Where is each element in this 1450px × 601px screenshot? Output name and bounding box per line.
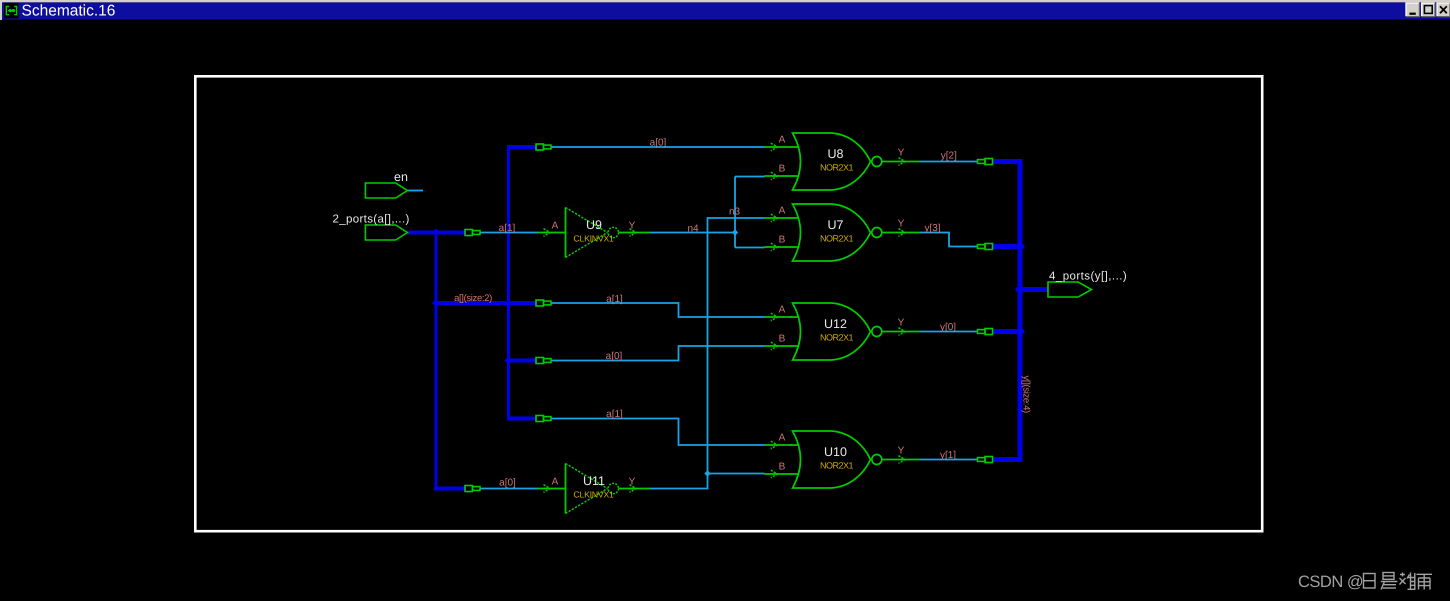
svg-text:y[3]: y[3] <box>924 223 940 234</box>
bus tap a[1] row418 <box>536 416 551 422</box>
wire bus vertical x436 <box>435 231 438 488</box>
junction bus at port tap <box>432 229 440 237</box>
svg-text:NOR2X1: NOR2X1 <box>820 162 854 172</box>
inverter U11 <box>565 464 567 514</box>
junction n3 <box>704 470 710 476</box>
wire y[0] <box>920 331 978 333</box>
svg-text:A: A <box>779 304 786 315</box>
svg-text:n3: n3 <box>729 207 741 218</box>
svg-text:Y: Y <box>629 477 636 488</box>
wire bus y1 to corner <box>993 457 1023 462</box>
wire net n4 vertical <box>734 177 736 248</box>
wire bus vertical x1020 <box>1018 159 1023 462</box>
svg-text:a[1]: a[1] <box>606 294 623 305</box>
maximize button <box>1422 3 1435 17</box>
wire en stub <box>407 190 423 192</box>
bus tap a[1] row232 <box>465 230 480 236</box>
wire a[0] bottom row <box>480 488 538 490</box>
junction bus x508 row303 <box>505 299 513 307</box>
svg-text:U9: U9 <box>586 218 602 232</box>
bus tap y[0] <box>978 329 993 335</box>
svg-text:2_ports(a[],...): 2_ports(a[],...) <box>333 214 410 226</box>
wire n4 to U7 B <box>735 247 765 249</box>
inverter U9 <box>565 208 567 258</box>
svg-text:U11: U11 <box>583 474 605 488</box>
wire bus vertical x508 <box>507 145 510 421</box>
svg-text:y[1]: y[1] <box>940 450 956 461</box>
svg-text:en: en <box>394 170 408 184</box>
svg-text:B: B <box>779 163 786 174</box>
sheet border frame <box>195 76 1262 531</box>
nor gate U8 <box>793 133 871 190</box>
svg-text:Schematic.16: Schematic.16 <box>22 2 116 19</box>
close button <box>1437 3 1450 17</box>
svg-text:U10: U10 <box>824 445 847 459</box>
svg-text:U12: U12 <box>824 317 847 331</box>
junction n4 <box>732 229 738 235</box>
wire y[3] <box>920 233 978 247</box>
wire bus horizontal row303 <box>434 301 537 305</box>
svg-text:a[0]: a[0] <box>499 478 516 489</box>
wire bus y3 to junction <box>993 244 1021 249</box>
svg-text:U7: U7 <box>828 218 844 232</box>
wire n3 to U10 B <box>708 473 765 475</box>
svg-text:NOR2X1: NOR2X1 <box>820 460 854 470</box>
wire bus bottom corner to pin a0 <box>434 487 466 491</box>
wire y[1] <box>920 459 978 461</box>
svg-text:Y: Y <box>629 221 636 232</box>
svg-text:a[1]: a[1] <box>606 409 623 420</box>
junction ybus y3 <box>1015 241 1025 251</box>
output port 4_ports <box>1048 282 1092 297</box>
svg-text:a[1]: a[1] <box>499 223 516 234</box>
svg-text:NOR2X1: NOR2X1 <box>820 233 854 243</box>
minimize button <box>1406 3 1419 17</box>
svg-text:NOR2X1: NOR2X1 <box>820 332 854 342</box>
svg-text:CLKINVX1: CLKINVX1 <box>573 490 614 500</box>
svg-text:Y: Y <box>898 219 905 230</box>
svg-text:y[0]: y[0] <box>940 322 956 333</box>
nor gate U7 <box>793 204 871 261</box>
junction ybus y0 <box>1015 326 1025 336</box>
bus tap y[2] <box>978 159 993 165</box>
title bar <box>2 2 1450 19</box>
wire bus junction to 4_ports <box>1020 287 1048 292</box>
junction bus x508 row360 <box>505 357 513 365</box>
svg-text:y[](size:4): y[](size:4) <box>1021 376 1032 414</box>
wire a[1] row303 to U12 A <box>551 303 765 317</box>
wire y[2] <box>920 161 978 163</box>
svg-text:4_ports(y[],...): 4_ports(y[],...) <box>1049 271 1127 283</box>
wire net n3 from U11 <box>650 218 765 489</box>
svg-text:y[2]: y[2] <box>941 151 957 162</box>
wire bus row360 branch <box>507 359 537 363</box>
svg-text:CSDN @: CSDN @ <box>1298 573 1363 591</box>
app icon <box>4 3 19 19</box>
input port 2_ports <box>365 225 407 240</box>
svg-text:Y: Y <box>898 318 905 329</box>
svg-text:A: A <box>779 134 786 145</box>
wire bus y0 to junction <box>993 329 1021 334</box>
nor gate U12 <box>793 303 871 360</box>
bus tap a[1] row303 <box>536 300 551 306</box>
svg-text:A: A <box>552 477 559 488</box>
svg-text:Y: Y <box>898 148 905 159</box>
wire bus row418 branch <box>507 417 537 421</box>
title bar top border <box>0 0 1450 2</box>
svg-text:U8: U8 <box>828 147 844 161</box>
bus tap a[0] bottom <box>465 486 480 492</box>
svg-text:a[](size:2): a[](size:2) <box>454 293 492 304</box>
input port en <box>365 183 407 198</box>
svg-text:a[0]: a[0] <box>606 351 623 362</box>
svg-text:a[0]: a[0] <box>650 138 667 149</box>
svg-text:CLKINVX1: CLKINVX1 <box>573 234 614 244</box>
junction bus x436 row303 <box>432 299 440 307</box>
wire bus top corner to pin a0 <box>507 145 537 149</box>
title bar left border <box>0 0 2 20</box>
junction ybus port <box>1015 284 1025 294</box>
svg-text:B: B <box>779 333 786 344</box>
wire a[0] row360 to U12 B <box>551 346 765 361</box>
wire bus 2_ports to pin <box>407 231 466 235</box>
wire a[1] row232 <box>480 232 538 234</box>
wire net n4 <box>650 232 735 234</box>
bus tap y[3] <box>978 244 993 250</box>
svg-text:B: B <box>779 234 786 245</box>
nor gate U10 <box>793 431 871 488</box>
bus tap y[1] <box>978 457 993 463</box>
wire bus y2 to corner <box>993 159 1023 164</box>
svg-text:A: A <box>779 432 786 443</box>
svg-text:B: B <box>779 461 786 472</box>
svg-text:Y: Y <box>898 446 905 457</box>
bus tap a[0] top <box>536 144 551 150</box>
svg-text:A: A <box>779 205 786 216</box>
wire n4 to U8 B <box>735 176 765 178</box>
bus tap a[0] row360 <box>536 358 551 364</box>
wire a[1] row418 to U10 A <box>551 419 765 446</box>
svg-text:A: A <box>552 221 559 232</box>
wire a[0] top row <box>551 146 765 148</box>
svg-text:n4: n4 <box>687 224 699 235</box>
